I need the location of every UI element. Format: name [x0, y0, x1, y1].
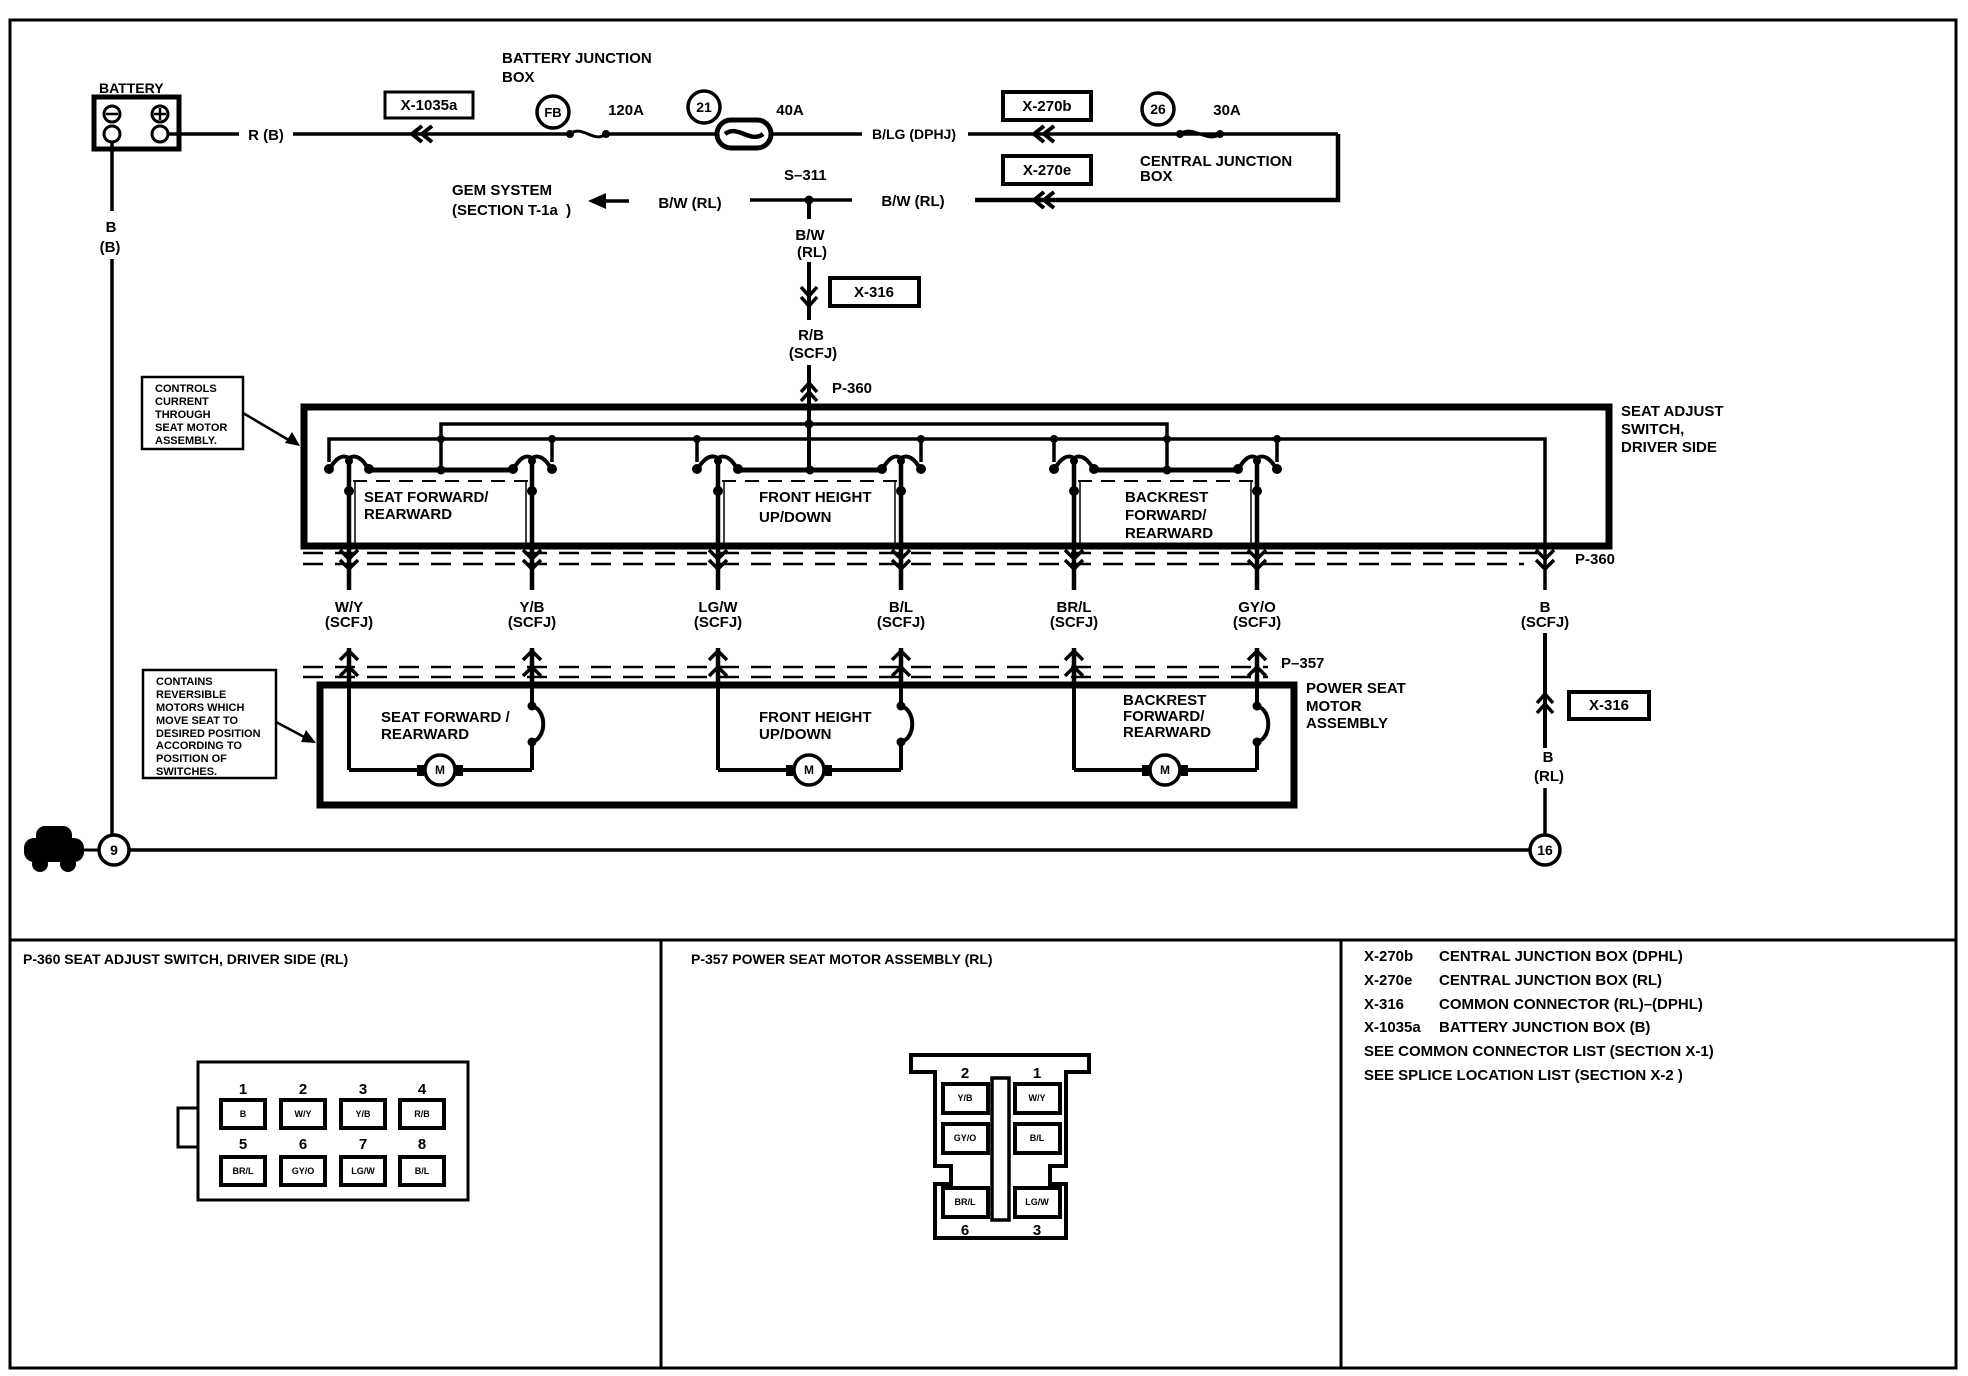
footer divider line [10, 939, 1956, 942]
svg-text:SEAT MOTOR: SEAT MOTOR [155, 422, 227, 434]
svg-text:(SECTION T-1a ): (SECTION T-1a ) [452, 202, 571, 219]
connector P-360 entry chevrons up [801, 383, 817, 401]
motor M1 seat forward/rearward [349, 685, 543, 785]
svg-text:CONTAINS: CONTAINS [156, 676, 213, 688]
wire battery B drop lower [110, 259, 114, 835]
battery BT1 box [94, 97, 179, 149]
wire feed to switch SW2b [919, 439, 923, 462]
svg-text:Y/B: Y/B [355, 1109, 371, 1119]
connector X-1035a box [385, 92, 473, 118]
svg-text:7: 7 [359, 1136, 367, 1153]
junction bar SW2 feed [806, 466, 815, 475]
svg-text:B/W: B/W [795, 227, 825, 244]
connector P-357 dashed boundary [303, 666, 1268, 669]
svg-text:P-360: P-360 [832, 380, 872, 397]
svg-text:MOVE SEAT TO: MOVE SEAT TO [156, 715, 239, 727]
svg-text:40A: 40A [776, 102, 804, 119]
junction lower bus at 552 [548, 435, 556, 443]
svg-text:SWITCH,: SWITCH, [1621, 421, 1684, 438]
ground ref circle 9 [99, 835, 129, 865]
switch mechanical link dashed [1078, 480, 1253, 482]
motor M2 front height up/down [718, 685, 912, 785]
junction pole dot at x=349 [344, 486, 354, 496]
svg-text:(SCFJ): (SCFJ) [789, 345, 837, 362]
wire R/B drop to P-360 [807, 365, 811, 404]
svg-text:REARWARD: REARWARD [1125, 525, 1213, 542]
svg-text:BOX: BOX [1140, 168, 1173, 185]
wire switch pole at x=1074 [1072, 458, 1077, 590]
connector X-316 box [830, 278, 919, 306]
junction lower bus at 697 [693, 435, 701, 443]
battery lower-left terminal [104, 126, 120, 142]
connector P-357 chevrons at x=718 [709, 651, 727, 676]
connector P-357 chevrons at x=901 [892, 651, 910, 676]
svg-text:6: 6 [299, 1136, 307, 1153]
fuse circle 21 [688, 91, 720, 123]
wire F1 to F2 [606, 132, 717, 136]
wire B return to X-316 [1543, 633, 1547, 748]
switch label area side lines [354, 481, 356, 545]
switch label area side lines [1079, 481, 1081, 545]
svg-text:26: 26 [1150, 101, 1166, 117]
svg-text:X-270b: X-270b [1022, 98, 1071, 115]
svg-text:SWITCHES.: SWITCHES. [156, 766, 217, 778]
svg-text:30A: 30A [1213, 102, 1241, 119]
junction pole dot at x=1257 [1252, 486, 1262, 496]
svg-text:SEE COMMON CONNECTOR LIST (S: SEE COMMON CONNECTOR LIST (SECTION X-1) [1364, 1043, 1714, 1060]
svg-text:CENTRAL JUNCTION BOX (RL): CENTRAL JUNCTION BOX (RL) [1439, 972, 1662, 989]
connector X-270b chevrons [1034, 126, 1054, 142]
connector P-360 dashed boundary [303, 552, 1538, 555]
svg-text:P-360: P-360 [1575, 551, 1615, 568]
svg-text:POSITION OF: POSITION OF [156, 753, 227, 765]
connector P-360 chevrons at x=718 [709, 550, 727, 569]
svg-text:R (B): R (B) [248, 127, 284, 144]
wire battery to R(B) label [168, 132, 239, 136]
svg-text:M: M [804, 763, 814, 777]
connector P-357 chevrons at x=1257 [1248, 651, 1266, 676]
junction bar SW3 feed [1163, 466, 1172, 475]
svg-text:SEAT ADJUST: SEAT ADJUST [1621, 403, 1724, 420]
svg-text:X-1035a: X-1035a [1364, 1019, 1421, 1036]
svg-text:B/L: B/L [1030, 1133, 1045, 1143]
svg-text:1: 1 [239, 1081, 247, 1098]
svg-text:REARWARD: REARWARD [381, 726, 469, 743]
svg-text:SEE SPLICE LOCATION LIST (SECT: SEE SPLICE LOCATION LIST (SECTION X-2 ) [1364, 1067, 1683, 1084]
junction lower bus at 921 [917, 435, 925, 443]
connector P-360 chevrons at x=1545 [1536, 550, 1554, 569]
splice S-311 junction [805, 196, 814, 205]
connector P-360 chevrons at x=1257 [1248, 550, 1266, 569]
wire B/W drop to X-316 [807, 262, 811, 320]
svg-text:M: M [435, 763, 445, 777]
svg-text:G: G [46, 841, 62, 863]
wire to motor assembly at x=349 [347, 648, 352, 684]
svg-text:FB: FB [544, 105, 561, 120]
svg-text:X-1035a: X-1035a [401, 97, 458, 114]
svg-text:THROUGH: THROUGH [155, 409, 211, 421]
svg-text:B: B [1543, 749, 1554, 766]
svg-text:W/Y: W/Y [1029, 1093, 1046, 1103]
svg-text:DRIVER SIDE: DRIVER SIDE [1621, 439, 1717, 456]
junction lower bus at 441 [437, 435, 445, 443]
motor assembly box P-357 (power seat motor assembly) [320, 685, 1294, 805]
junction entry x upper bus [805, 420, 814, 429]
fuse F2 40A oval [717, 120, 771, 148]
ground connector line [84, 849, 99, 852]
wire feed to switch SW3a [1052, 439, 1056, 462]
wire B/LG run to CJB [968, 132, 1338, 136]
svg-text:Y/B: Y/B [957, 1093, 973, 1103]
svg-text:FORWARD/: FORWARD/ [1125, 507, 1207, 524]
ground ref circle 16 [1530, 835, 1560, 865]
wire to motor assembly at x=1257 [1255, 648, 1260, 684]
connector P-360 face drawing body [198, 1062, 468, 1200]
switch rocker SW2b [877, 457, 926, 475]
svg-text:S–311: S–311 [784, 167, 827, 184]
switch mechanical link dashed [353, 480, 528, 482]
wire switch pole at x=901 [899, 458, 904, 590]
note arrow to switch box [243, 413, 300, 446]
svg-text:UP/DOWN: UP/DOWN [759, 509, 832, 526]
wire feed to switch SW3b [1275, 439, 1279, 462]
svg-text:BOX: BOX [502, 69, 535, 86]
connector X-270e box [1003, 156, 1091, 184]
svg-text:FRONT HEIGHT: FRONT HEIGHT [759, 489, 872, 506]
svg-text:LG/W: LG/W [351, 1166, 375, 1176]
wire F2 to B/LG label [771, 132, 862, 136]
svg-text:X-270b: X-270b [1364, 948, 1413, 965]
svg-text:CENTRAL JUNCTION BOX (DPHL): CENTRAL JUNCTION BOX (DPHL) [1439, 948, 1683, 965]
svg-text:B/W (RL): B/W (RL) [881, 193, 944, 210]
svg-text:REARWARD: REARWARD [1123, 724, 1211, 741]
svg-text:SEAT FORWARD /: SEAT FORWARD / [381, 709, 510, 726]
wire switch pole at x=718 [716, 458, 721, 590]
wire switch pole at x=1257 [1255, 458, 1260, 590]
switch rocker SW1b [508, 457, 557, 475]
svg-text:GY/O: GY/O [292, 1166, 315, 1176]
svg-text:ACCORDING TO: ACCORDING TO [156, 740, 242, 752]
svg-text:2: 2 [961, 1065, 969, 1082]
connector P-357 chevrons at x=349 [340, 651, 358, 676]
svg-text:CURRENT: CURRENT [155, 396, 209, 408]
svg-text:BATTERY JUNCTION BOX (B): BATTERY JUNCTION BOX (B) [1439, 1019, 1650, 1036]
svg-text:BATTERY: BATTERY [99, 80, 164, 96]
connector P-360 chevrons at x=1074 [1065, 550, 1083, 569]
svg-text:6: 6 [961, 1222, 969, 1239]
svg-text:(SCFJ): (SCFJ) [325, 614, 373, 631]
svg-text:ASSEMBLY: ASSEMBLY [1306, 715, 1388, 732]
svg-text:X-270e: X-270e [1364, 972, 1412, 989]
svg-text:(SCFJ): (SCFJ) [1521, 614, 1569, 631]
svg-text:(B): (B) [100, 239, 121, 256]
svg-text:M: M [1160, 763, 1170, 777]
svg-text:BR/L: BR/L [233, 1166, 254, 1176]
svg-text:2: 2 [299, 1081, 307, 1098]
wire feed to switch SW2a [695, 439, 699, 462]
svg-text:R/B: R/B [798, 327, 824, 344]
P-357 pin B/L [1015, 1124, 1060, 1153]
svg-text:GEM SYSTEM: GEM SYSTEM [452, 182, 552, 199]
wire S-311 segment [750, 198, 852, 202]
connector X-316 box (right) [1569, 692, 1649, 719]
P-357 pin GY/O [943, 1124, 988, 1153]
svg-text:(SCFJ): (SCFJ) [1233, 614, 1281, 631]
connector P-360 face tab [178, 1108, 198, 1147]
ground symbol G (vehicle body) [24, 826, 84, 872]
wire R(B) run to fuse FB [293, 132, 570, 136]
svg-text:X-316: X-316 [854, 284, 894, 301]
svg-text:B/W (RL): B/W (RL) [658, 195, 721, 212]
wire to motor assembly at x=901 [899, 648, 904, 684]
svg-text:FRONT HEIGHT: FRONT HEIGHT [759, 709, 872, 726]
svg-text:(SCFJ): (SCFJ) [877, 614, 925, 631]
wire lower feed bus [329, 439, 1545, 590]
connector X-270b box [1003, 92, 1091, 120]
arrow to GEM system [588, 193, 629, 209]
svg-text:4: 4 [418, 1081, 427, 1098]
switch rocker SW3b [1233, 457, 1282, 475]
wire to motor assembly at x=718 [716, 648, 721, 684]
fuse circle 26 [1142, 93, 1174, 125]
junction lower bus at 1054 [1050, 435, 1058, 443]
svg-text:3: 3 [1033, 1222, 1041, 1239]
svg-text:9: 9 [110, 842, 118, 858]
svg-text:B/L: B/L [415, 1166, 430, 1176]
svg-text:FORWARD/: FORWARD/ [1123, 708, 1205, 725]
junction lower bus at 1277 [1273, 435, 1281, 443]
svg-text:3: 3 [359, 1081, 367, 1098]
svg-text:REVERSIBLE: REVERSIBLE [156, 689, 226, 701]
svg-text:BACKREST: BACKREST [1123, 692, 1206, 709]
note box: controls current [142, 377, 243, 449]
svg-text:X-270e: X-270e [1023, 162, 1071, 179]
svg-text:BR/L: BR/L [955, 1197, 976, 1207]
svg-text:R/B: R/B [414, 1109, 430, 1119]
svg-text:8: 8 [418, 1136, 426, 1153]
switch rocker SW3a [1049, 457, 1099, 475]
svg-text:BATTERY JUNCTION: BATTERY JUNCTION [502, 50, 652, 67]
svg-text:W/Y: W/Y [295, 1109, 312, 1119]
fuse FB circle [537, 96, 569, 128]
svg-text:B/LG (DPHJ): B/LG (DPHJ) [872, 126, 956, 142]
junction pole dot at x=532 [527, 486, 537, 496]
svg-text:P-360 SEAT ADJUST SWITCH, DRIV: P-360 SEAT ADJUST SWITCH, DRIVER SIDE (R… [23, 951, 348, 967]
battery positive terminal [152, 106, 168, 122]
fuse F1 120A [566, 130, 574, 138]
switch rocker SW1a [324, 457, 374, 475]
svg-text:BACKREST: BACKREST [1125, 489, 1208, 506]
connector X-270e chevrons [1034, 192, 1054, 208]
fuse F3 30A [1176, 130, 1184, 138]
wire switch feed entry [807, 404, 811, 470]
connector X-1035a chevrons [412, 126, 432, 142]
svg-text:(RL): (RL) [797, 244, 827, 261]
wire S-311 drop upper [807, 200, 811, 219]
svg-text:CONTROLS: CONTROLS [155, 383, 217, 395]
svg-text:(SCFJ): (SCFJ) [694, 614, 742, 631]
svg-text:(SCFJ): (SCFJ) [1050, 614, 1098, 631]
svg-text:5: 5 [239, 1136, 247, 1153]
svg-text:B: B [240, 1109, 247, 1119]
svg-text:(SCFJ): (SCFJ) [508, 614, 556, 631]
svg-text:MOTORS WHICH: MOTORS WHICH [156, 702, 244, 714]
junction pole dot at x=901 [896, 486, 906, 496]
switch mechanical link dashed [722, 480, 897, 482]
junction pole dot at x=718 [713, 486, 723, 496]
svg-text:DESIRED POSITION: DESIRED POSITION [156, 728, 261, 740]
note arrow to motor box [276, 722, 316, 743]
svg-text:SEAT FORWARD/: SEAT FORWARD/ [364, 489, 489, 506]
connector P-357 chevrons at x=532 [523, 651, 541, 676]
svg-text:GY/O: GY/O [954, 1133, 977, 1143]
connector X-316 chevrons up (right) [1537, 694, 1553, 713]
connector X-316 chevrons down [801, 287, 817, 306]
P-357 pin BR/L (6) [943, 1188, 988, 1217]
note box: contains reversible motors [143, 670, 276, 778]
ground bus wire [129, 848, 1530, 852]
connector P-357 center key [992, 1078, 1009, 1220]
connector P-360 chevrons at x=901 [892, 550, 910, 569]
svg-text:120A: 120A [608, 102, 644, 119]
svg-text:(RL): (RL) [1534, 768, 1564, 785]
svg-text:B: B [106, 219, 117, 236]
wire switch pole at x=532 [530, 458, 535, 590]
wire to motor assembly at x=1074 [1072, 648, 1077, 684]
switch label area side lines [723, 481, 725, 545]
switch bar SW2 [738, 468, 882, 473]
svg-text:MOTOR: MOTOR [1306, 698, 1362, 715]
footer column divider 2 [1340, 940, 1343, 1368]
svg-text:X-316: X-316 [1364, 996, 1404, 1013]
svg-text:1: 1 [1033, 1065, 1041, 1082]
svg-text:P–357: P–357 [1281, 655, 1324, 672]
svg-text:COMMON CONNECTOR (RL)–(DPHL): COMMON CONNECTOR (RL)–(DPHL) [1439, 996, 1703, 1013]
connector P-357 chevrons at x=1074 [1065, 651, 1083, 676]
switch assembly box P-360 (seat adjust switch) [304, 407, 1609, 546]
wire switch pole at x=349 [347, 458, 352, 590]
switch bar SW1 [369, 468, 513, 473]
svg-text:P-357 POWER SEAT MOTOR ASSEMBL: P-357 POWER SEAT MOTOR ASSEMBLY (RL) [691, 951, 993, 967]
switch rocker SW2a [692, 457, 743, 475]
junction lower bus at 1167 [1163, 435, 1171, 443]
connector P-360 chevrons at x=532 [523, 550, 541, 569]
svg-text:UP/DOWN: UP/DOWN [759, 726, 832, 743]
battery negative terminal [104, 106, 120, 122]
svg-text:16: 16 [1537, 842, 1553, 858]
switch bar SW3 [1094, 468, 1238, 473]
svg-text:X-316: X-316 [1589, 697, 1629, 714]
svg-text:REARWARD: REARWARD [364, 506, 452, 523]
wire to motor assembly at x=532 [530, 648, 535, 684]
svg-text:POWER SEAT: POWER SEAT [1306, 680, 1406, 697]
connector P-360 chevrons at x=349 [340, 550, 358, 569]
wire battery B drop upper [110, 142, 114, 211]
motor M3 backrest forward/rearward [1074, 685, 1268, 785]
wire B (RL) to ground circle [1543, 788, 1547, 835]
battery lower-right terminal [152, 126, 168, 142]
svg-text:LG/W: LG/W [1025, 1197, 1049, 1207]
P-357 pin LG/W (3) [1015, 1188, 1060, 1217]
footer column divider 1 [660, 940, 663, 1368]
wire CJB loop corner [975, 134, 1338, 200]
junction bar SW1 feed [437, 466, 446, 475]
wire upper feed bus [441, 424, 1167, 470]
svg-text:21: 21 [696, 99, 712, 115]
junction pole dot at x=1074 [1069, 486, 1079, 496]
wire feed to switch SW1b [550, 439, 554, 462]
connector P-357 face outline [911, 1055, 1089, 1238]
svg-text:ASSEMBLY.: ASSEMBLY. [155, 435, 217, 447]
